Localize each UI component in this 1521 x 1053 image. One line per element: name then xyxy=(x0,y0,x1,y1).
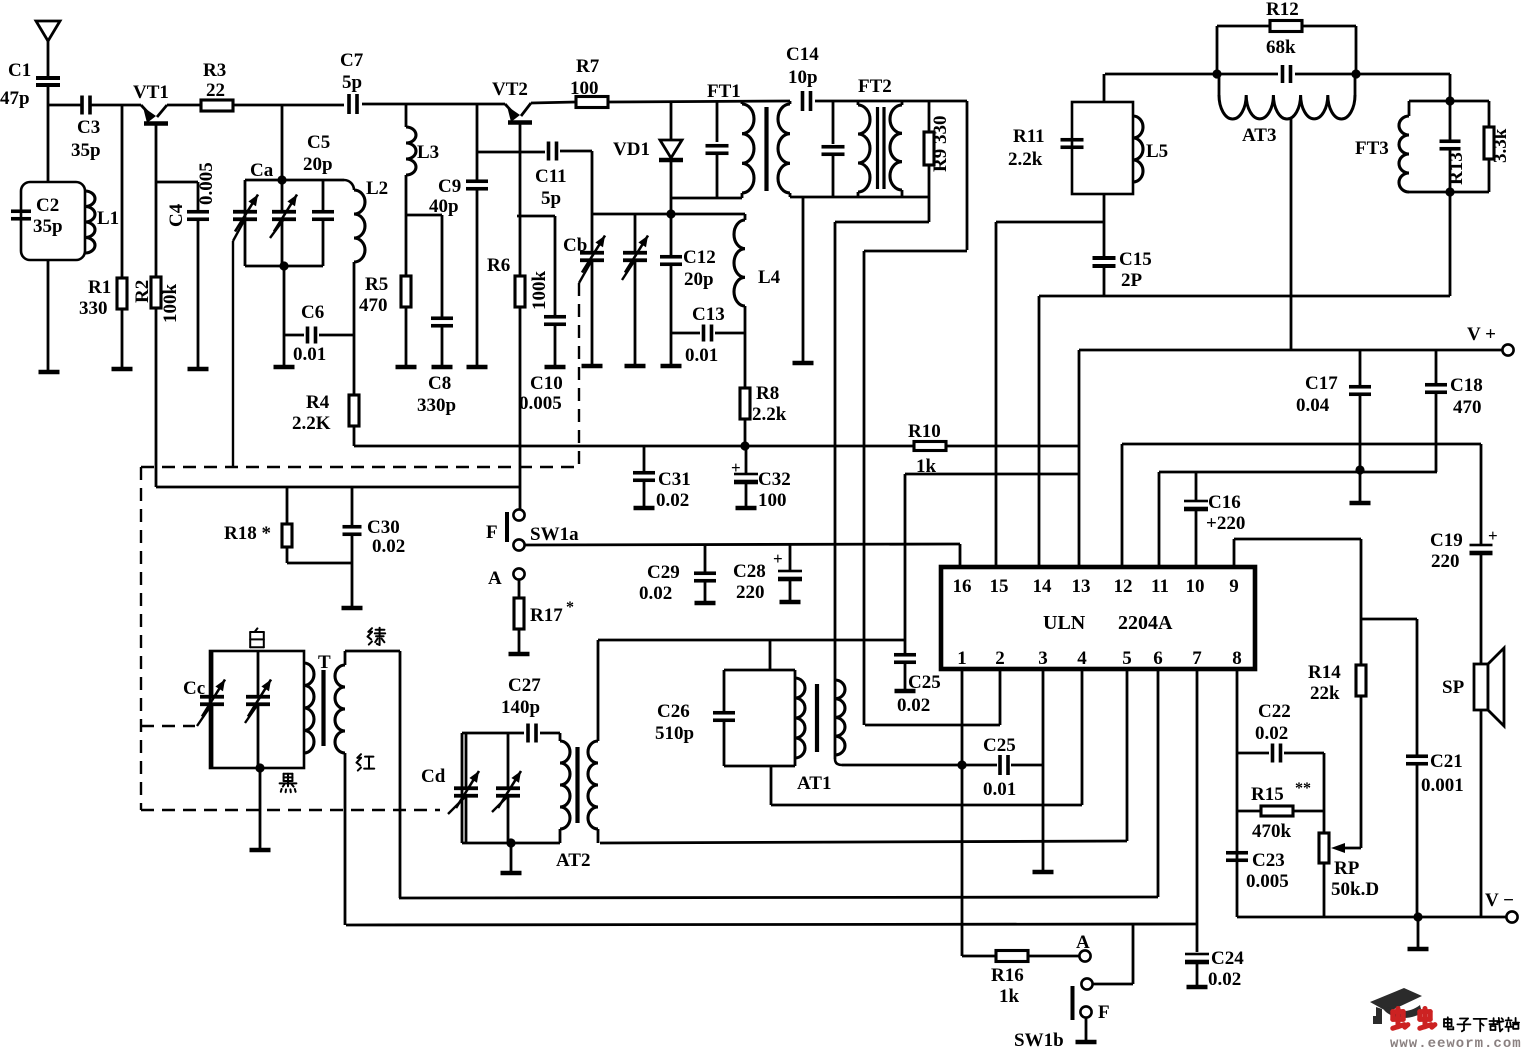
svg-text:**: ** xyxy=(1295,780,1311,797)
svg-text:100: 100 xyxy=(758,490,787,511)
svg-text:22k: 22k xyxy=(1310,683,1340,704)
svg-text:140p: 140p xyxy=(501,697,540,718)
svg-text:2.2k: 2.2k xyxy=(752,404,787,425)
svg-text:20p: 20p xyxy=(303,154,333,175)
svg-text:R8: R8 xyxy=(756,383,779,404)
svg-text:0.01: 0.01 xyxy=(293,344,326,365)
svg-text:C23: C23 xyxy=(1252,850,1285,871)
svg-text:R12: R12 xyxy=(1266,0,1299,20)
svg-text:AT2: AT2 xyxy=(556,850,590,871)
svg-text:R13: R13 xyxy=(1446,152,1467,185)
svg-text:*: * xyxy=(566,599,574,616)
svg-text:0.02: 0.02 xyxy=(639,583,672,604)
svg-text:C28: C28 xyxy=(733,561,766,582)
svg-text:9: 9 xyxy=(1229,576,1239,597)
svg-text:2.2k: 2.2k xyxy=(1008,149,1043,170)
svg-text:+220: +220 xyxy=(1206,513,1245,534)
svg-text:14: 14 xyxy=(1033,576,1053,597)
svg-text:Cb: Cb xyxy=(563,235,587,256)
svg-text:C19: C19 xyxy=(1430,530,1463,551)
svg-text:C9: C9 xyxy=(438,176,461,197)
svg-text:35p: 35p xyxy=(71,140,101,161)
svg-text:R9 330: R9 330 xyxy=(930,116,951,172)
svg-text:0.005: 0.005 xyxy=(519,393,562,414)
svg-text:0.02: 0.02 xyxy=(1208,969,1241,990)
svg-text:+: + xyxy=(1488,526,1498,545)
svg-text:5p: 5p xyxy=(541,188,561,209)
svg-text:F: F xyxy=(1098,1002,1110,1023)
svg-text:C25: C25 xyxy=(908,672,941,693)
svg-text:L4: L4 xyxy=(758,267,781,288)
svg-text:AT1: AT1 xyxy=(797,773,831,794)
svg-text:470k: 470k xyxy=(1252,821,1292,842)
svg-text:C2: C2 xyxy=(36,195,59,216)
svg-text:R4: R4 xyxy=(306,392,330,413)
svg-text:16: 16 xyxy=(953,576,972,597)
svg-text:+: + xyxy=(773,549,783,568)
svg-text:47p: 47p xyxy=(0,88,30,109)
svg-text:R6: R6 xyxy=(487,255,510,276)
svg-text:ULN: ULN xyxy=(1043,612,1086,634)
svg-text:3.3k: 3.3k xyxy=(1490,128,1511,163)
svg-text:220: 220 xyxy=(736,582,765,603)
svg-text:C3: C3 xyxy=(77,117,100,138)
svg-text:100k: 100k xyxy=(160,284,181,324)
svg-text:R5: R5 xyxy=(365,274,388,295)
svg-text:+: + xyxy=(731,458,741,477)
svg-text:0.005: 0.005 xyxy=(196,162,217,205)
svg-text:10p: 10p xyxy=(788,67,818,88)
svg-text:100: 100 xyxy=(570,78,599,99)
svg-text:SW1a: SW1a xyxy=(530,524,579,545)
svg-text:Ca: Ca xyxy=(250,160,274,181)
svg-text:R18 *: R18 * xyxy=(224,523,271,544)
svg-text:12: 12 xyxy=(1114,576,1133,597)
svg-text:V −: V − xyxy=(1485,890,1514,911)
svg-text:FT3: FT3 xyxy=(1355,138,1389,159)
svg-text:0.02: 0.02 xyxy=(656,490,689,511)
svg-text:R17: R17 xyxy=(530,605,563,626)
svg-text:C25: C25 xyxy=(983,735,1016,756)
svg-text:V +: V + xyxy=(1467,324,1496,345)
svg-text:R15: R15 xyxy=(1251,784,1284,805)
svg-text:L1: L1 xyxy=(97,208,119,229)
svg-text:5: 5 xyxy=(1122,648,1132,669)
svg-text:2P: 2P xyxy=(1121,270,1143,291)
svg-text:15: 15 xyxy=(990,576,1009,597)
svg-text:C31: C31 xyxy=(658,469,691,490)
svg-text:C27: C27 xyxy=(508,675,541,696)
svg-text:C21: C21 xyxy=(1430,751,1463,772)
svg-text:A: A xyxy=(1076,932,1090,953)
svg-text:L3: L3 xyxy=(417,142,439,163)
svg-text:C24: C24 xyxy=(1211,948,1244,969)
svg-text:0.04: 0.04 xyxy=(1296,395,1330,416)
svg-text:C11: C11 xyxy=(535,166,567,187)
svg-text:0.02: 0.02 xyxy=(897,695,930,716)
svg-text:VT2: VT2 xyxy=(492,79,528,100)
svg-text:C13: C13 xyxy=(692,304,725,325)
svg-text:68k: 68k xyxy=(1266,37,1296,58)
svg-text:0.005: 0.005 xyxy=(1246,871,1289,892)
svg-text:C1: C1 xyxy=(8,60,31,81)
svg-text:Cc: Cc xyxy=(183,678,205,699)
svg-text:11: 11 xyxy=(1151,576,1169,597)
svg-text:C4: C4 xyxy=(166,203,187,227)
svg-text:L2: L2 xyxy=(366,178,388,199)
svg-text:35p: 35p xyxy=(33,216,63,237)
svg-text:R11: R11 xyxy=(1013,126,1045,147)
svg-text:470: 470 xyxy=(359,295,388,316)
svg-text:C32: C32 xyxy=(758,469,791,490)
svg-text:AT3: AT3 xyxy=(1242,125,1276,146)
svg-text:C8: C8 xyxy=(428,373,451,394)
svg-text:C18: C18 xyxy=(1450,375,1483,396)
svg-text:R10: R10 xyxy=(908,421,941,442)
svg-text:C30: C30 xyxy=(367,517,400,538)
svg-text:R2: R2 xyxy=(132,280,153,303)
svg-text:0.001: 0.001 xyxy=(1421,775,1464,796)
svg-text:50k.D: 50k.D xyxy=(1331,879,1379,900)
svg-text:0.02: 0.02 xyxy=(372,536,405,557)
svg-text:RP: RP xyxy=(1334,858,1360,879)
svg-text:R16: R16 xyxy=(991,965,1024,986)
svg-text:22: 22 xyxy=(206,80,225,101)
svg-text:FT2: FT2 xyxy=(858,76,892,97)
svg-text:SW1b: SW1b xyxy=(1014,1030,1064,1048)
svg-text:C12: C12 xyxy=(683,247,716,268)
svg-text:7: 7 xyxy=(1192,648,1202,669)
svg-text:R3: R3 xyxy=(203,60,226,81)
svg-text:8: 8 xyxy=(1232,648,1242,669)
svg-text:VT1: VT1 xyxy=(133,82,169,103)
svg-text:C17: C17 xyxy=(1305,373,1338,394)
svg-text:470: 470 xyxy=(1453,397,1482,418)
svg-text:330p: 330p xyxy=(417,395,456,416)
svg-text:R1: R1 xyxy=(88,277,111,298)
svg-text:20p: 20p xyxy=(684,269,714,290)
svg-text:FT1: FT1 xyxy=(707,81,741,102)
svg-text:5p: 5p xyxy=(342,72,362,93)
svg-text:1k: 1k xyxy=(999,986,1020,1007)
svg-text:C14: C14 xyxy=(786,44,819,65)
svg-text:6: 6 xyxy=(1153,648,1163,669)
svg-text:10: 10 xyxy=(1186,576,1205,597)
svg-text:www.eeworm.com: www.eeworm.com xyxy=(1390,1036,1521,1048)
svg-text:40p: 40p xyxy=(429,196,459,217)
svg-text:Cd: Cd xyxy=(421,766,446,787)
svg-text:C10: C10 xyxy=(530,373,563,394)
svg-text:F: F xyxy=(486,522,498,543)
svg-text:C7: C7 xyxy=(340,50,364,71)
svg-text:100k: 100k xyxy=(529,271,550,311)
svg-text:330: 330 xyxy=(79,298,108,319)
svg-text:C22: C22 xyxy=(1258,701,1291,722)
svg-text:2.2K: 2.2K xyxy=(292,413,331,434)
svg-text:0.02: 0.02 xyxy=(1255,723,1288,744)
svg-text:C26: C26 xyxy=(657,701,690,722)
svg-text:SP: SP xyxy=(1442,677,1465,698)
svg-text:4: 4 xyxy=(1077,648,1087,669)
svg-text:R14: R14 xyxy=(1308,662,1341,683)
svg-text:C6: C6 xyxy=(301,302,324,323)
svg-text:3: 3 xyxy=(1038,648,1048,669)
svg-text:2204A: 2204A xyxy=(1118,612,1173,634)
svg-text:A: A xyxy=(488,568,502,589)
svg-text:2: 2 xyxy=(995,648,1005,669)
svg-text:T: T xyxy=(318,652,331,673)
svg-text:C29: C29 xyxy=(647,562,680,583)
svg-text:0.01: 0.01 xyxy=(983,779,1016,800)
svg-text:220: 220 xyxy=(1431,551,1460,572)
svg-text:0.01: 0.01 xyxy=(685,345,718,366)
svg-text:C5: C5 xyxy=(307,132,330,153)
svg-text:C16: C16 xyxy=(1208,492,1241,513)
svg-text:R7: R7 xyxy=(576,56,600,77)
svg-text:L5: L5 xyxy=(1146,141,1168,162)
svg-text:13: 13 xyxy=(1072,576,1091,597)
svg-text:1: 1 xyxy=(957,648,967,669)
svg-text:C15: C15 xyxy=(1119,249,1152,270)
svg-text:510p: 510p xyxy=(655,723,694,744)
svg-text:VD1: VD1 xyxy=(613,139,650,160)
